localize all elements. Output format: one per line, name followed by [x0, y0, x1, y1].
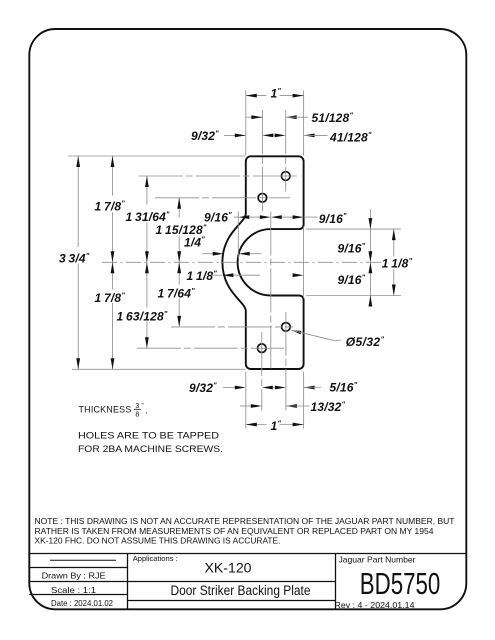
hole C centerline vertical: [285, 312, 287, 411]
hole B (top left): [258, 194, 267, 203]
svg-text:.: .: [145, 406, 148, 416]
dimension 1 31/64 inch: hole A center to datum: [146, 176, 148, 205]
svg-text:XK-120 FHC. DO NOT ASSUME THI: XK-120 FHC. DO NOT ASSUME THIS DRAWING I…: [35, 536, 281, 546]
svg-text:5/16": 5/16": [330, 380, 358, 395]
svg-text:3: 3: [135, 403, 139, 410]
svg-text:Drawn By : RJE: Drawn By : RJE: [42, 571, 106, 581]
svg-text:1 1/8": 1 1/8": [187, 268, 218, 283]
dimension 1 inch (top): part width: [246, 95, 267, 97]
svg-text:BD5750: BD5750: [360, 567, 441, 601]
svg-text:1 7/64": 1 7/64": [158, 286, 196, 301]
svg-text:3 3/4": 3 3/4": [59, 251, 90, 266]
hole D centerline vertical: [261, 332, 263, 411]
svg-text:9/16": 9/16": [338, 241, 366, 256]
svg-text:Jaguar Part Number: Jaguar Part Number: [339, 556, 416, 565]
svg-text:Door Striker Backing Plate: Door Striker Backing Plate: [171, 583, 311, 598]
svg-text:9/16": 9/16": [319, 211, 347, 226]
title block middle dividers: [128, 581, 336, 583]
dimension 3 3/4 inch: overall height: [77, 156, 79, 248]
svg-text:Applications :: Applications :: [133, 554, 178, 563]
svg-text:1 7/8": 1 7/8": [95, 199, 126, 214]
centerline horizontal datum (dash-dot): [102, 261, 381, 263]
svg-text:13/32": 13/32": [311, 399, 346, 414]
dimension 5/16 inch: hole C to right edge (label right): [275, 386, 286, 390]
extension line right edge across cutout: [303, 227, 305, 299]
dimension 9/16 inch: arc center to right edge (label right): [271, 215, 282, 219]
svg-text:8: 8: [135, 412, 139, 419]
extension line above part left edge: [245, 91, 247, 156]
svg-text:9/16": 9/16": [338, 272, 366, 287]
dimension 1 7/8 inch upper: top edge to center: [112, 156, 114, 196]
dimension 51/128 inch: hole B to hole A horizontal: [247, 116, 263, 118]
hole B centerline horizontal: [155, 197, 290, 199]
svg-text:XK-120: XK-120: [205, 560, 252, 576]
hole A centerline vertical: [285, 110, 287, 192]
svg-text:Scale : 1:1: Scale : 1:1: [51, 585, 96, 595]
svg-text:1 31/64": 1 31/64": [126, 209, 171, 224]
hole A centerline horizontal: [139, 175, 299, 177]
hole D centerline horizontal: [137, 347, 284, 349]
dimension 13/32 inch: hole D to hole C: [240, 405, 251, 407]
dimension 9/16 inch: cutout top to datum (right side): [369, 209, 371, 306]
svg-text:Rev : 4 - 2024.01.14: Rev : 4 - 2024.01.14: [335, 601, 415, 610]
extension line part bottom edge (left): [72, 368, 245, 370]
svg-text:9/32": 9/32": [189, 380, 217, 395]
extension line cutout bottom edge (right): [306, 295, 401, 297]
leader diameter 5/32 inch to hole C: [291, 330, 301, 334]
svg-text:9/32": 9/32": [191, 128, 219, 143]
dimension 1 1/8 inch: cutout height (far right): [393, 229, 395, 256]
svg-text:": ": [142, 404, 144, 410]
extension line cutout top edge (right): [306, 228, 401, 230]
part outline: door striker backing plate: [222, 156, 303, 369]
dimension 41/128 inch: hole A to right edge: [275, 134, 286, 138]
extension line below part left edge: [245, 372, 247, 429]
extension line above part right edge: [303, 91, 305, 156]
extension line part top edge (left): [68, 155, 245, 157]
svg-text:1 1/8": 1 1/8": [382, 256, 413, 271]
svg-text:RATHER IS TAKEN FROM MEASUREME: RATHER IS TAKEN FROM MEASUREMENTS OF AN …: [35, 526, 434, 536]
svg-text:1 7/8": 1 7/8": [95, 290, 126, 305]
svg-text:41/128": 41/128": [329, 130, 372, 145]
hole C (bottom right, 5/32 dia): [282, 323, 291, 332]
svg-text:1 63/128": 1 63/128": [117, 309, 168, 324]
dimension 1 15/128 inch: hole B center to datum: [178, 198, 180, 218]
extension line arc center vertical: [270, 212, 272, 369]
extension line below part right edge: [303, 372, 305, 429]
svg-text:FOR 2BA MACHINE SCREWS.: FOR 2BA MACHINE SCREWS.: [78, 444, 223, 454]
svg-text:NOTE : THIS DRAWING IS NOT AN: NOTE : THIS DRAWING IS NOT AN ACCURATE R…: [35, 516, 456, 526]
title block left column rows: [29, 567, 127, 569]
svg-text:THICKNESS: THICKNESS: [79, 405, 132, 415]
svg-text:Ø5/32": Ø5/32": [346, 334, 385, 349]
extension line arc leftmost: [237, 212, 239, 259]
hole B centerline vertical: [261, 110, 263, 213]
hole C centerline horizontal: [171, 326, 293, 328]
svg-text:Date : 2024.01.02: Date : 2024.01.02: [51, 598, 113, 608]
svg-text:HOLES ARE TO BE TAPPED: HOLES ARE TO BE TAPPED: [78, 430, 219, 440]
hole A (top right): [281, 172, 290, 181]
dimension 1 inch (bottom): part width: [246, 424, 267, 426]
signature line in empty cell: [50, 559, 116, 561]
svg-text:9/16": 9/16": [204, 210, 232, 225]
hole D (bottom left): [258, 344, 267, 353]
svg-text:51/128": 51/128": [312, 110, 354, 125]
title block frame: [29, 553, 466, 555]
